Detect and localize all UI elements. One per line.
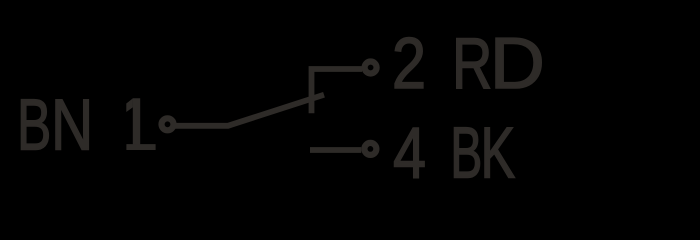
terminal 4 xyxy=(364,143,376,155)
label BK xyxy=(450,113,515,194)
svg-text:N: N xyxy=(51,85,93,165)
label digit 1 (common terminal number, drawn glyph with foot) xyxy=(126,98,155,150)
svg-text:B: B xyxy=(450,113,482,193)
label RD xyxy=(452,23,545,104)
wire: switch pole from terminal 1 xyxy=(175,95,324,126)
svg-text:B: B xyxy=(17,85,51,166)
svg-text:K: K xyxy=(481,113,516,193)
svg-text:D: D xyxy=(490,23,545,104)
label BN (brown wire, common) xyxy=(17,85,93,166)
terminal 2 xyxy=(365,62,377,74)
wire: contact 2 lead (elbow) xyxy=(312,69,363,113)
wire: contact 4 lead xyxy=(310,147,361,153)
svg-text:4: 4 xyxy=(393,112,426,193)
svg-text:2: 2 xyxy=(392,23,426,104)
svg-text:R: R xyxy=(452,23,492,103)
terminal 1 xyxy=(162,118,174,130)
label 2 (red wire terminal number) xyxy=(392,23,426,104)
label 4 (black wire terminal number) xyxy=(393,112,426,193)
